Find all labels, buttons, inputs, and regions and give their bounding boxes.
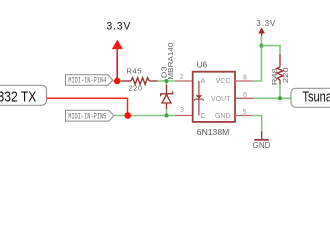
pin 3 stub of U6 [175,115,193,117]
junction node 3.3V [114,78,121,85]
junction node TX/PIN5 [124,112,131,119]
node junction at D3 top [165,79,169,83]
svg-text:R48: R48 [270,68,279,85]
pin 6 stub of U6 [235,97,253,99]
svg-text:8: 8 [243,74,247,81]
wire VOUT net to Tsunami [253,97,291,99]
wire GND net from pin 5 [253,116,262,133]
wire diode branch down [166,81,168,86]
svg-text:MIDI-IN-PIN5: MIDI-IN-PIN5 [68,113,106,121]
svg-text:U6: U6 [197,60,208,69]
connector box 332 TX [0,85,47,105]
resistor R48 [277,55,283,86]
wire 332TX net [47,98,128,115]
label flag MIDI-IN-PIN4 [66,75,113,86]
op-to-coupler U6 body [193,72,235,122]
svg-text:2: 2 [180,74,184,81]
svg-text:MIDI-IN-PIN4: MIDI-IN-PIN4 [68,78,106,86]
svg-text:3.3V: 3.3V [256,19,276,28]
svg-text:220: 220 [129,83,143,92]
svg-text:220: 220 [281,67,290,83]
pin 2 stub of U6 [175,80,193,82]
diode D3 [161,85,173,110]
svg-text:GND: GND [215,113,231,120]
wire R45 to pin A net [158,80,176,82]
svg-text:5: 5 [243,109,247,116]
svg-text:VOUT: VOUT [211,96,231,103]
svg-text:MBRA140: MBRA140 [166,43,175,80]
svg-text:VCC: VCC [216,78,231,85]
supply symbol 3.3V arrow (right) [259,28,264,36]
svg-text:6N138M: 6N138M [197,127,229,137]
svg-text:Tsunami: Tsunami [302,88,330,105]
wire 3.3V net to R45 [113,80,122,82]
pin 5 stub of U6 [235,115,253,117]
wire 3.3V to R48 [262,46,281,55]
svg-text:3.3V: 3.3V [106,21,131,33]
resistor R45 [122,78,158,85]
wire R48 bottom to VOUT net [279,84,281,98]
svg-text:C: C [201,113,206,120]
svg-text:R45: R45 [126,67,142,76]
junction node 3.3V right [260,44,264,48]
wire 3.3V rail (right) [253,36,262,81]
svg-text:332 TX: 332 TX [0,88,36,104]
node junction at D3 bottom [165,114,169,118]
svg-text:6: 6 [243,92,247,99]
svg-text:3: 3 [180,107,184,114]
supply symbol 3.3V arrow (left) [113,41,122,81]
junction node VOUT/R48 [278,96,282,100]
svg-text:GND: GND [253,141,271,150]
pin 8 stub of U6 [235,80,253,82]
svg-text:A: A [201,78,206,85]
connector box Tsunami [291,88,330,108]
wire D3 bottom to net [166,109,168,116]
wire PIN5 net to pin C [114,115,175,117]
ground symbol [254,132,269,140]
label flag MIDI-IN-PIN5 [66,110,114,121]
internal LED of U6 [194,81,203,116]
